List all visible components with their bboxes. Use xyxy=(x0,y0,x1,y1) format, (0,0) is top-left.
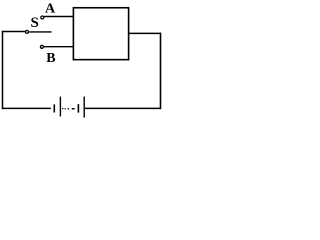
wire contact A to box xyxy=(44,16,74,18)
switch throw contact B xyxy=(40,45,43,48)
switch throw contact A xyxy=(41,16,44,19)
dots for additional cells xyxy=(62,108,75,110)
svg-text:S: S xyxy=(31,15,39,31)
svg-text:A: A xyxy=(45,2,56,17)
wire bottom left to battery xyxy=(2,107,51,109)
wire box output right xyxy=(128,32,161,34)
wire left feed to pole xyxy=(2,31,25,33)
wire left side down xyxy=(2,31,4,109)
battery cell 2 positive plate xyxy=(83,97,85,118)
wire contact B to box xyxy=(44,46,74,48)
component box xyxy=(73,8,128,60)
battery cell 1 negative plate xyxy=(53,104,55,112)
svg-text:B: B xyxy=(46,51,55,66)
wire battery to bottom right xyxy=(85,107,161,109)
switch lever xyxy=(29,31,51,33)
switch S pole contact xyxy=(26,30,29,33)
wire right side down xyxy=(160,33,162,109)
battery cell 1 positive plate xyxy=(59,97,61,117)
battery cell 2 negative plate xyxy=(77,104,79,113)
